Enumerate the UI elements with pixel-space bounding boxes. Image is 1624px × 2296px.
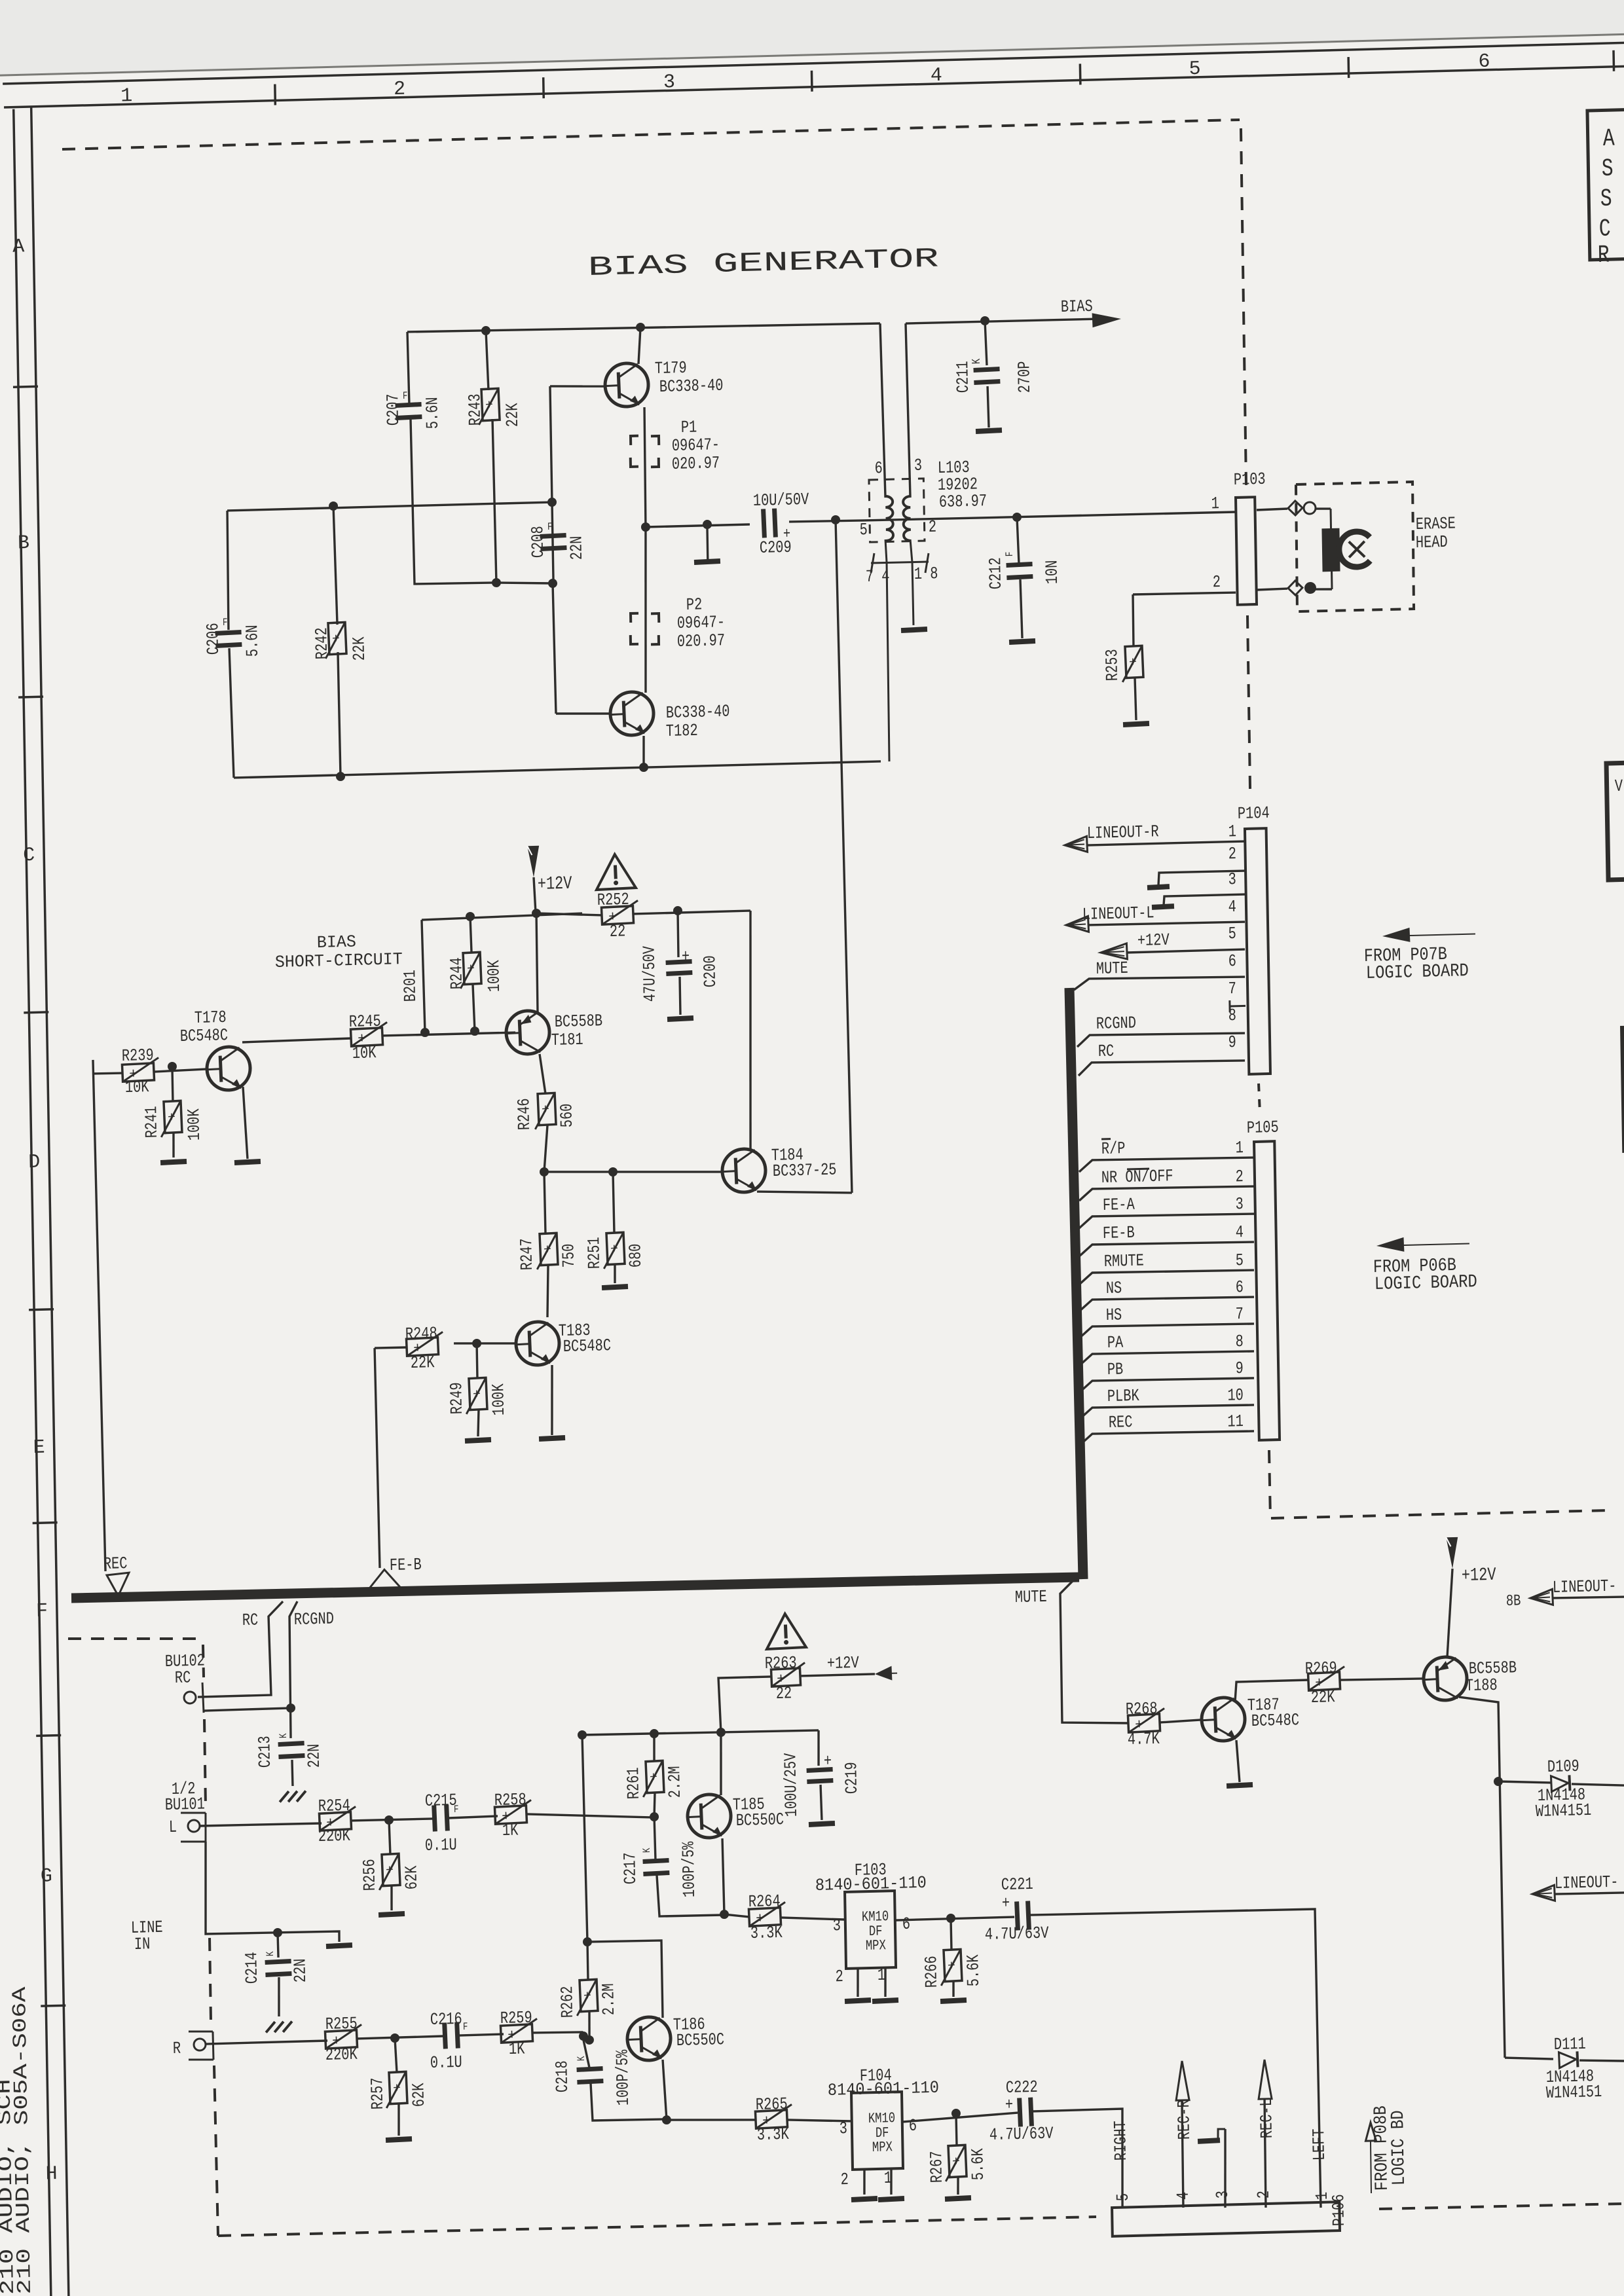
wire T182 base vertical to C208 bottom bbox=[553, 583, 556, 714]
wire R255 to C216 bbox=[357, 2036, 444, 2039]
FE-B arrow into bus bbox=[368, 1569, 401, 1590]
capacitor C216 0.1U bbox=[430, 2009, 469, 2073]
svg-text:6: 6 bbox=[874, 458, 883, 478]
node main line left junction bbox=[641, 522, 650, 532]
signal wire PA P105 pin 8 bbox=[1079, 1329, 1254, 1366]
resistor R264 bbox=[748, 1891, 786, 1944]
bus thick L-shaped signal bus bbox=[62, 988, 1083, 1605]
svg-text:22K: 22K bbox=[411, 1353, 435, 1373]
svg-text:BIAS: BIAS bbox=[317, 932, 356, 953]
connector P104 pin numbers bbox=[1225, 822, 1240, 1052]
transformer L103 bbox=[858, 454, 991, 762]
grid column numbers bbox=[120, 51, 1490, 108]
wire T185 emitter to R264 bbox=[724, 1914, 749, 1918]
svg-text:PA: PA bbox=[1107, 1332, 1124, 1353]
svg-text:2: 2 bbox=[394, 79, 406, 101]
svg-text:0.1U: 0.1U bbox=[430, 2052, 462, 2073]
svg-text:638.97: 638.97 bbox=[939, 491, 987, 512]
wire winding pin3 top bbox=[906, 323, 910, 498]
wire T188 collector down bbox=[1459, 1696, 1505, 2058]
svg-text:1: 1 bbox=[1235, 1138, 1244, 1157]
svg-text:D: D bbox=[28, 1152, 41, 1174]
svg-text:D111: D111 bbox=[1554, 2034, 1586, 2054]
svg-text:+12V: +12V bbox=[1137, 930, 1170, 951]
svg-text:LINEOUT-R: LINEOUT-R bbox=[1087, 822, 1159, 843]
svg-text:BU101: BU101 bbox=[165, 1794, 205, 1815]
svg-text:C: C bbox=[1599, 215, 1612, 244]
+12V supply arrow upper bbox=[527, 845, 572, 896]
svg-text:22: 22 bbox=[610, 921, 626, 941]
resistor R251 bbox=[583, 1171, 646, 1291]
svg-text:F: F bbox=[36, 1600, 48, 1622]
wire main output line left bbox=[646, 524, 750, 527]
svg-text:F: F bbox=[403, 390, 408, 402]
resistor R245 bbox=[349, 1011, 388, 1063]
svg-text:S: S bbox=[1601, 155, 1614, 183]
signal wire RMUTE P105 pin 5 bbox=[1079, 1248, 1254, 1285]
svg-text:100K: 100K bbox=[484, 960, 504, 993]
F104 pin2 ground bbox=[851, 2168, 877, 2202]
+12V supply arrow to R263 bbox=[800, 1652, 897, 1683]
node R243 bottom junction bbox=[492, 578, 501, 587]
wire T187 collector to R269 bbox=[1234, 1680, 1309, 1702]
module box at right edge bbox=[1606, 762, 1624, 880]
svg-text:8: 8 bbox=[1235, 1332, 1244, 1351]
svg-text:C208: C208 bbox=[528, 526, 548, 558]
label FROM P07B bbox=[1364, 945, 1447, 967]
transistor T178 bbox=[179, 1007, 251, 1092]
resistor R268 bbox=[1126, 1698, 1166, 1749]
dashed boundary lower board left edge 4 bbox=[214, 2066, 218, 2236]
label LOGIC BOARD (P07B) bbox=[1366, 961, 1469, 984]
svg-text:+: + bbox=[386, 1863, 394, 1879]
wire FE-B vertical bbox=[375, 1348, 380, 1568]
wire R264 to F103 bbox=[781, 1916, 845, 1921]
svg-text:5: 5 bbox=[1189, 58, 1201, 81]
svg-text:BC550C: BC550C bbox=[676, 2030, 725, 2050]
signal wire REC P105 pin 11 bbox=[1079, 1409, 1254, 1446]
svg-text:R: R bbox=[173, 2039, 181, 2058]
RCGND wire P104 pin8 to bus bbox=[1077, 1010, 1245, 1047]
wire transformer tap line to P103 pin1 bbox=[864, 511, 1236, 522]
svg-text:680: 680 bbox=[625, 1243, 646, 1267]
ground at oscillator output bbox=[693, 528, 720, 566]
svg-text:R: R bbox=[1597, 242, 1610, 270]
wire T183 emitter bbox=[551, 1365, 553, 1435]
label LINE IN line2 bbox=[134, 1934, 151, 1954]
svg-text:+: + bbox=[610, 1242, 619, 1258]
info box top right bbox=[1587, 109, 1624, 270]
svg-text:+: + bbox=[467, 962, 475, 977]
resistor R249 bbox=[446, 1343, 509, 1444]
wire F104 pin6 out bbox=[903, 2113, 1018, 2122]
svg-text:+: + bbox=[393, 2081, 401, 2097]
node R244 top junction bbox=[466, 912, 475, 921]
svg-text:6: 6 bbox=[1235, 1277, 1244, 1297]
svg-text:BC548C: BC548C bbox=[180, 1025, 229, 1046]
svg-text:R245: R245 bbox=[349, 1011, 381, 1032]
svg-text:+: + bbox=[952, 2155, 961, 2170]
svg-text:4: 4 bbox=[1235, 1222, 1244, 1242]
jumper switch P1 bbox=[630, 417, 720, 475]
wire T186 collector feed bbox=[582, 1735, 587, 1942]
svg-text:T182: T182 bbox=[666, 721, 698, 741]
svg-text:REC: REC bbox=[103, 1554, 128, 1574]
svg-text:R244: R244 bbox=[447, 957, 467, 990]
svg-text:IN: IN bbox=[134, 1934, 151, 1954]
svg-text:3: 3 bbox=[839, 2119, 847, 2138]
wire P104 pin2 stub bbox=[1158, 871, 1246, 885]
wire R258 to T185 base bbox=[526, 1811, 654, 1821]
node T186 base junction bbox=[585, 2035, 594, 2045]
node R257 junction bbox=[390, 2033, 399, 2043]
svg-text:R247: R247 bbox=[517, 1238, 537, 1271]
svg-text:4.7K: 4.7K bbox=[1128, 1729, 1160, 1749]
capacitor C217 100P/5% bbox=[619, 1815, 723, 1917]
wire R242 vertical bbox=[333, 506, 337, 625]
svg-text:RIGHT: RIGHT bbox=[1111, 2121, 1131, 2161]
svg-text:LINEOUT-: LINEOUT- bbox=[1555, 1872, 1619, 1893]
resistor R254 bbox=[318, 1796, 357, 1846]
connector P106 bbox=[1112, 2194, 1349, 2236]
wire short-circuit rail bbox=[422, 913, 582, 920]
svg-text:P104: P104 bbox=[1238, 803, 1270, 824]
wire P103 pin2 to erase head bbox=[1257, 589, 1287, 590]
capacitor C219 100U/25V electrolytic bbox=[781, 1729, 862, 1828]
node ground stub junction bbox=[703, 520, 712, 529]
svg-text:1K: 1K bbox=[509, 2039, 525, 2059]
svg-text:FE-B: FE-B bbox=[1103, 1223, 1135, 1243]
wire T179 base link bbox=[550, 385, 605, 388]
NC bar pin3 bbox=[1152, 903, 1174, 910]
resistor R253 bbox=[1101, 594, 1149, 727]
svg-text:+: + bbox=[650, 1770, 658, 1786]
node C208 top junction bbox=[547, 498, 557, 507]
svg-text:22N: 22N bbox=[290, 1958, 310, 1982]
svg-text:5.6K: 5.6K bbox=[963, 1954, 984, 1987]
node +12V rail junction bbox=[532, 909, 541, 918]
svg-text:100K: 100K bbox=[184, 1108, 204, 1141]
dashed boundary lower board bottom edge right part bbox=[1379, 2203, 1624, 2210]
svg-text:MUTE: MUTE bbox=[1015, 1587, 1047, 1607]
svg-text:8140-601-110: 8140-601-110 bbox=[815, 1873, 927, 1895]
dashed boundary below P105 bbox=[1269, 1442, 1609, 1519]
label FROM P08B bbox=[1371, 2105, 1393, 2191]
node T178 base junction bbox=[168, 1062, 177, 1071]
svg-text:RCGND: RCGND bbox=[1096, 1013, 1136, 1034]
ground T187 emitter bbox=[1227, 1782, 1253, 1789]
connector P103 bbox=[1211, 469, 1268, 606]
svg-text:R253: R253 bbox=[1102, 649, 1122, 682]
svg-text:C209: C209 bbox=[760, 538, 792, 558]
resistor R239 bbox=[122, 1046, 160, 1098]
svg-text:S: S bbox=[1600, 185, 1613, 213]
svg-text:K: K bbox=[970, 358, 984, 364]
svg-text:R258: R258 bbox=[494, 1790, 526, 1810]
svg-text:K: K bbox=[576, 2056, 587, 2061]
svg-text:P1: P1 bbox=[681, 417, 697, 437]
label BIAS SHORT-CIRCUIT line1 bbox=[317, 932, 356, 953]
svg-text:+12V: +12V bbox=[538, 874, 572, 895]
svg-text:8140-601-110: 8140-601-110 bbox=[828, 2078, 939, 2100]
svg-text:020.97: 020.97 bbox=[677, 630, 726, 651]
svg-text:PB: PB bbox=[1107, 1359, 1124, 1379]
resistor R256 bbox=[359, 1819, 422, 1918]
transistor T184 bbox=[722, 1144, 837, 1193]
wire R239 left lead to REC vertical bbox=[93, 1073, 122, 1074]
P104 pin7 NC stub bbox=[1230, 1000, 1246, 1012]
LINEOUT-R arrow P104 pin1 bbox=[1064, 820, 1245, 853]
IC F104 record EQ bbox=[827, 2064, 940, 2190]
signal wire R/P P105 pin 1 bbox=[1079, 1135, 1254, 1172]
svg-text:22N: 22N bbox=[304, 1743, 324, 1768]
svg-text:B201: B201 bbox=[400, 970, 420, 1002]
signal wire NR ON/OFF P105 pin 2 bbox=[1079, 1164, 1254, 1201]
second module box edge at right bbox=[1620, 1026, 1624, 1153]
svg-text:6: 6 bbox=[1478, 51, 1490, 73]
svg-text:4: 4 bbox=[931, 65, 943, 87]
label LINE IN line1 bbox=[131, 1918, 163, 1938]
capacitor C222 4.7U/63V electrolytic bbox=[988, 2077, 1054, 2145]
wire lower junction to C208 bottom bbox=[496, 581, 553, 585]
node R251 junction bbox=[608, 1167, 618, 1176]
svg-text:R/P: R/P bbox=[1101, 1139, 1126, 1159]
svg-text:HS: HS bbox=[1106, 1305, 1122, 1325]
svg-text:2: 2 bbox=[835, 1967, 843, 1986]
wire P103 pin1 to erase head bbox=[1257, 509, 1287, 510]
svg-text:L: L bbox=[169, 1817, 177, 1837]
wire R input to R255 bbox=[206, 2041, 327, 2044]
ground C214 bbox=[266, 2021, 292, 2032]
transistor T188 bbox=[1423, 1654, 1517, 1701]
svg-text:62K: 62K bbox=[401, 1865, 422, 1890]
resistor R241 bbox=[141, 1066, 204, 1166]
label FE-B at bus bbox=[390, 1555, 422, 1575]
svg-text:BC548C: BC548C bbox=[1251, 1710, 1300, 1731]
label LOGIC BOARD (P06B) bbox=[1375, 1272, 1477, 1295]
svg-text:7: 7 bbox=[1235, 1304, 1244, 1324]
dashed erase head box bbox=[1295, 481, 1415, 611]
node T182 emitter junction bbox=[639, 763, 648, 772]
svg-text:C: C bbox=[23, 845, 35, 867]
signal wire HS P105 pin 7 bbox=[1079, 1302, 1254, 1338]
wire top rail to winding pin6 bbox=[880, 323, 885, 498]
svg-text:RCGND: RCGND bbox=[294, 1609, 334, 1630]
resistor R246 bbox=[513, 1053, 578, 1173]
svg-text:T179: T179 bbox=[655, 358, 687, 378]
node C212 junction bbox=[1012, 513, 1022, 522]
label FROM P06B bbox=[1373, 1256, 1456, 1278]
svg-text:NS: NS bbox=[1106, 1278, 1122, 1298]
svg-text:BC550C: BC550C bbox=[736, 1810, 784, 1831]
svg-text:R255: R255 bbox=[325, 2014, 358, 2034]
wire C200 corner down to T184 collector bbox=[747, 911, 754, 1150]
resistor R259 bbox=[500, 2008, 538, 2060]
svg-text:R246: R246 bbox=[514, 1098, 534, 1131]
capacitor C218 100P/5% bbox=[552, 2038, 665, 2122]
svg-text:C216: C216 bbox=[430, 2009, 462, 2030]
RC wire from bus to BU102 bbox=[196, 1601, 285, 1697]
svg-text:10: 10 bbox=[1227, 1385, 1244, 1406]
svg-text:22K: 22K bbox=[1311, 1687, 1335, 1707]
svg-text:BC337-25: BC337-25 bbox=[773, 1160, 837, 1181]
wire R269 to T188 base bbox=[1340, 1678, 1424, 1681]
svg-text:+: + bbox=[542, 1102, 550, 1118]
wire long vertical from C209 node down to T184 emitter bbox=[836, 520, 852, 1193]
wire T178 collector to R245 bbox=[242, 1038, 351, 1042]
node R242 top junction bbox=[329, 501, 338, 511]
svg-text:A: A bbox=[1602, 125, 1615, 153]
dashed boundary lower board left edge 2 bbox=[204, 1719, 206, 1806]
svg-text:10K: 10K bbox=[125, 1077, 149, 1097]
svg-text:1: 1 bbox=[1228, 822, 1236, 841]
wire +12V to T188 emitter bbox=[1446, 1569, 1454, 1657]
connector P106 pin numbers bbox=[1113, 2188, 1332, 2206]
wire P103 pin2 wire bbox=[1133, 592, 1236, 595]
capacitor C207 bbox=[383, 389, 443, 430]
svg-text:+: + bbox=[168, 1110, 176, 1126]
label LOGIC BD (P08B) bbox=[1388, 2110, 1410, 2186]
wire F103 pin6 out bbox=[896, 1917, 1014, 1920]
svg-text:5.6K: 5.6K bbox=[968, 2148, 988, 2181]
svg-text:4.7U/63V: 4.7U/63V bbox=[989, 2124, 1054, 2145]
svg-text:V: V bbox=[1615, 776, 1623, 796]
svg-text:220K: 220K bbox=[318, 1826, 351, 1846]
resistor R258 bbox=[494, 1790, 532, 1841]
FROM P06B arrow bbox=[1376, 1235, 1470, 1253]
node C208 bottom junction bbox=[548, 579, 557, 588]
+12V rail of record amps bbox=[582, 1729, 819, 1736]
svg-text:BIAS: BIAS bbox=[1061, 297, 1093, 317]
svg-text:C212: C212 bbox=[986, 557, 1006, 590]
svg-text:270P: 270P bbox=[1014, 361, 1035, 393]
wire R239 to T178 base bbox=[154, 1069, 207, 1072]
ground L input sleeve bbox=[326, 1942, 352, 1949]
wire T185 collector bbox=[720, 1732, 722, 1795]
wire T186 emitter to R265 bbox=[667, 2118, 756, 2123]
svg-text:09647-: 09647- bbox=[677, 612, 726, 633]
wire T182 collector through P2 bbox=[643, 527, 649, 693]
resistor R243 bbox=[465, 388, 523, 428]
MUTE wire from bus corner to R268 bbox=[1060, 1579, 1128, 1725]
signal wire PLBK P105 pin 10 bbox=[1079, 1383, 1254, 1419]
svg-text:R257: R257 bbox=[367, 2077, 388, 2110]
capacitor C221 4.7U/63V electrolytic bbox=[984, 1874, 1049, 1944]
svg-text:REC: REC bbox=[1109, 1412, 1133, 1432]
svg-text:P2: P2 bbox=[686, 594, 703, 615]
svg-text:3: 3 bbox=[1228, 869, 1236, 889]
svg-text:LEFT: LEFT bbox=[1309, 2128, 1329, 2161]
svg-text:2: 2 bbox=[929, 517, 937, 537]
signal wire NS P105 pin 6 bbox=[1079, 1275, 1254, 1311]
svg-text:R242: R242 bbox=[312, 627, 332, 660]
svg-text:RC: RC bbox=[175, 1667, 191, 1688]
svg-text:R239: R239 bbox=[122, 1046, 154, 1066]
title BIAS GENERATOR bbox=[587, 243, 939, 283]
svg-text:3: 3 bbox=[914, 456, 923, 475]
erase head connector diamonds bbox=[1287, 500, 1318, 595]
transistor T185 bbox=[687, 1792, 784, 1838]
svg-text:K: K bbox=[641, 1848, 653, 1853]
svg-text:+: + bbox=[544, 1243, 552, 1258]
wire T181 emitter from rail bbox=[536, 913, 538, 1011]
svg-text:HEAD: HEAD bbox=[1416, 532, 1448, 553]
dashed boundary upper board right edge lower part bbox=[1247, 615, 1250, 789]
svg-text:R254: R254 bbox=[318, 1796, 350, 1816]
svg-text:F: F bbox=[223, 617, 228, 629]
node C218 junction bbox=[579, 2032, 588, 2041]
wire R243 to lower junction bbox=[492, 419, 496, 583]
svg-text:SHORT-CIRCUIT: SHORT-CIRCUIT bbox=[275, 949, 403, 972]
svg-text:7: 7 bbox=[1228, 979, 1236, 998]
LINEOUT arrow upper right bbox=[1530, 1576, 1624, 1606]
svg-text:C217: C217 bbox=[620, 1852, 640, 1885]
svg-text:2: 2 bbox=[1254, 2191, 1274, 2199]
svg-text:R251: R251 bbox=[584, 1237, 604, 1269]
REC-R arrow P106 pin4 bbox=[1173, 2061, 1196, 2208]
ground T178 emitter bbox=[234, 1159, 261, 1165]
svg-text:LINEOUT-L: LINEOUT-L bbox=[1082, 903, 1154, 924]
svg-text:22K: 22K bbox=[349, 636, 369, 661]
wire B201 drop bbox=[422, 920, 425, 1032]
node T183 base junction bbox=[472, 1339, 481, 1348]
svg-text:9: 9 bbox=[1228, 1032, 1236, 1052]
jumper switch P2 bbox=[630, 594, 726, 652]
dashed boundary lower board bottom edge bbox=[218, 2214, 1096, 2239]
svg-text:+: + bbox=[948, 1959, 956, 1975]
wire +12V down to rail bbox=[534, 877, 536, 913]
wire T179 collector bbox=[638, 327, 641, 364]
svg-text:750: 750 bbox=[559, 1243, 579, 1267]
svg-text:R261: R261 bbox=[623, 1767, 644, 1800]
wire R263 to rail bbox=[718, 1677, 772, 1732]
IC F103 record EQ bbox=[815, 1859, 928, 1987]
svg-text:C219: C219 bbox=[841, 1762, 862, 1795]
wire collector link bbox=[587, 1940, 663, 2020]
transistor T179 bbox=[604, 357, 724, 407]
wire T186 emitter bbox=[663, 2060, 667, 2120]
svg-text:W1N4151: W1N4151 bbox=[1546, 2082, 1602, 2103]
svg-text:4: 4 bbox=[1228, 897, 1236, 917]
resistor R252 bbox=[597, 889, 639, 941]
wire C208 vertical bbox=[552, 502, 553, 579]
node C214 junction bbox=[273, 1928, 282, 1937]
svg-text:100K: 100K bbox=[489, 1383, 509, 1416]
node R261 top junction bbox=[650, 1729, 659, 1738]
wire R254 to C215 bbox=[351, 1819, 434, 1821]
connector P105 bbox=[1247, 1118, 1284, 1440]
wire R243 branch bbox=[486, 331, 489, 390]
svg-text:R265: R265 bbox=[756, 2094, 788, 2115]
capacitor C208 bbox=[528, 520, 587, 562]
node R266 junction bbox=[946, 1914, 955, 1923]
LINEOUT arrow lower right bbox=[1532, 1872, 1624, 1902]
svg-text:2.2M: 2.2M bbox=[599, 1983, 619, 2016]
svg-text:RC: RC bbox=[242, 1610, 259, 1630]
svg-text:+12V: +12V bbox=[827, 1653, 860, 1673]
svg-text:6: 6 bbox=[1228, 951, 1236, 971]
svg-text:BC338-40: BC338-40 bbox=[659, 376, 724, 397]
wire C207 branch vertical lower bbox=[411, 417, 496, 585]
svg-text:REC-R: REC-R bbox=[1174, 2100, 1194, 2140]
svg-text:5: 5 bbox=[859, 520, 868, 539]
resistor R265 bbox=[755, 2094, 793, 2145]
signal wire FE-A P105 pin 3 bbox=[1079, 1192, 1254, 1228]
svg-text:2: 2 bbox=[840, 2170, 849, 2189]
svg-text:MPX: MPX bbox=[866, 1937, 886, 1954]
node R247 junction bbox=[540, 1167, 549, 1176]
FROM P08B arrow bbox=[1365, 2123, 1377, 2193]
